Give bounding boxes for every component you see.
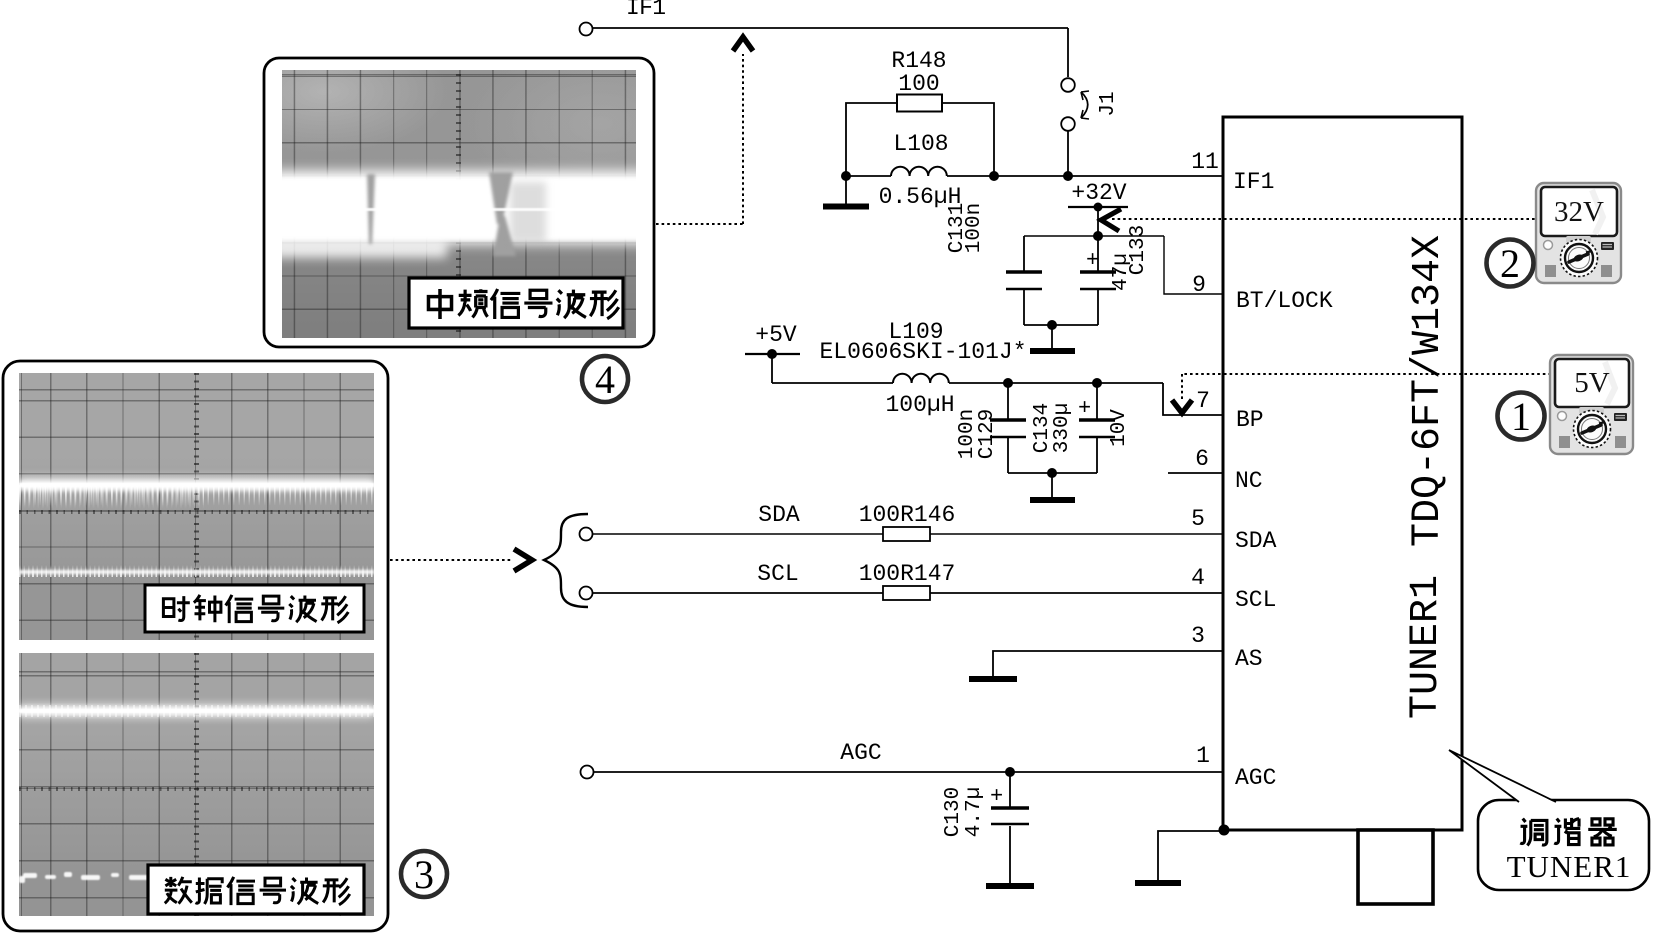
svg-text:100n: 100n (963, 203, 986, 253)
pin number 4 (1191, 565, 1205, 591)
wire IF1 rail to pin 11 (846, 175, 1224, 177)
scope data caption box (148, 865, 364, 914)
svg-text:2: 2 (1500, 241, 1520, 286)
label J1 (1097, 91, 1120, 116)
svg-text:J1: J1 (1097, 91, 1120, 116)
pin number 5 (1191, 506, 1205, 532)
pin name AS (1235, 646, 1263, 672)
svg-text:AGC: AGC (1235, 765, 1276, 791)
tuner bottom tab (1358, 830, 1433, 904)
voltmeter 32V (1536, 183, 1621, 283)
pin name IF1 (1233, 169, 1274, 195)
svg-text:3: 3 (1191, 623, 1205, 649)
pin 3 AS wire to ground (969, 651, 1224, 679)
svg-text:3: 3 (414, 852, 434, 897)
pin name SDA (1235, 528, 1277, 554)
net label AGC (840, 740, 881, 766)
pin number 6 (1195, 446, 1209, 472)
ground cap bank 1 (1030, 325, 1075, 351)
svg-text:100R147: 100R147 (859, 561, 956, 587)
refdes TUNER1 vertical (1404, 575, 1449, 719)
scope clock caption box (145, 585, 364, 632)
pin name BT/LOCK (1236, 288, 1333, 314)
wire cap bank top rail (1024, 231, 1164, 241)
arrow into pin 7 (1172, 400, 1192, 413)
svg-text:L108: L108 (893, 131, 948, 157)
capacitor C129 (990, 383, 1026, 473)
scope photo 4 frame (264, 58, 654, 347)
resistor R147 (883, 586, 930, 600)
svg-text:IF1: IF1 (626, 0, 666, 21)
svg-text:330µ: 330µ (1051, 403, 1074, 453)
label C130 (942, 787, 965, 837)
svg-text:4: 4 (1191, 565, 1205, 591)
callout number 3 (401, 851, 447, 897)
svg-text:AGC: AGC (840, 740, 881, 766)
svg-text:SDA: SDA (758, 502, 800, 528)
jumper J1 (1061, 78, 1089, 131)
oscilloscope photo 4: IF waveform (282, 70, 636, 338)
dotted probe line from scope 4 to IF1 wire (656, 54, 743, 224)
pin name NC (1235, 468, 1263, 494)
junction node C134 (1092, 378, 1102, 388)
pin name SCL (1235, 587, 1276, 613)
pin number 1 (1196, 743, 1210, 769)
svg-text:11: 11 (1191, 149, 1219, 175)
wire SDA right (930, 533, 1224, 535)
label L108 (893, 131, 948, 157)
net label SCL (757, 561, 798, 587)
value 100R146 (859, 502, 956, 528)
ground at tuner (1135, 831, 1224, 883)
svg-text:TUNER1: TUNER1 (1404, 575, 1449, 719)
callout text tuner (Chinese) (1520, 818, 1617, 846)
svg-text:TUNER1: TUNER1 (1507, 849, 1632, 884)
junction node tuner ground (1219, 825, 1230, 836)
wire cap bank bottom rail (1024, 320, 1098, 330)
dotted line from 5V meter (1182, 374, 1551, 400)
svg-text:TDQ-6FT/W134X: TDQ-6FT/W134X (1406, 235, 1451, 547)
capacitor C131 (1006, 236, 1042, 325)
value 100n (C129) (956, 409, 979, 459)
terminal IF1 (580, 23, 593, 36)
value 330u (1051, 403, 1074, 453)
scope photos 3 frame (3, 361, 388, 931)
label C131 (946, 203, 969, 253)
svg-text:BP: BP (1236, 407, 1264, 433)
terminal AGC (581, 766, 594, 779)
net label IF1 (626, 0, 666, 21)
callout bubble (1478, 800, 1649, 890)
svg-text:+: + (1086, 248, 1099, 273)
callout number 2 (1487, 240, 1534, 287)
wire SDA left (592, 533, 883, 535)
svg-text:7: 7 (1196, 388, 1210, 414)
value 100n (963, 203, 986, 253)
svg-text:BT/LOCK: BT/LOCK (1236, 288, 1333, 314)
probe arrow into brace (514, 549, 532, 571)
wire to pin 7 BP (1163, 383, 1224, 415)
pin number 7 (1196, 388, 1210, 414)
svg-text:6: 6 (1195, 446, 1209, 472)
svg-text:9: 9 (1192, 272, 1206, 298)
dotted line 32V through tuner (1224, 218, 1462, 220)
dotted probe line from scope 3 (390, 559, 512, 561)
value 100R147 (859, 561, 956, 587)
probe arrow at IF1 wire (733, 37, 753, 51)
wire SCL right (930, 592, 1224, 594)
power +5V (745, 322, 800, 383)
inductor L108 (891, 167, 947, 176)
svg-text:NC: NC (1235, 468, 1263, 494)
svg-text:C133: C133 (1127, 225, 1150, 275)
capacitor C133 polarized (1080, 236, 1116, 325)
svg-text:IF1: IF1 (1233, 169, 1274, 195)
oscilloscope photo 3b: data waveform (19, 653, 374, 916)
ground cap bank 2 (1030, 473, 1075, 500)
ground at L108 (823, 176, 869, 207)
wire cap bank 2 bottom rail (1008, 468, 1097, 478)
capacitor C134 polarized (1078, 383, 1115, 473)
svg-text:100R146: 100R146 (859, 502, 956, 528)
resistor R148 (846, 95, 994, 177)
svg-text:4.7µ: 4.7µ (963, 787, 986, 837)
wire AGC (594, 767, 1224, 777)
label L109 (888, 319, 943, 345)
junction node L108 left (841, 171, 851, 181)
svg-text:C129: C129 (976, 409, 999, 459)
voltmeter 5V (1550, 355, 1633, 454)
svg-text:+: + (1078, 396, 1091, 421)
svg-text:100: 100 (898, 71, 939, 97)
callout tail (1449, 750, 1556, 803)
callout number 4 (582, 356, 628, 402)
svg-text:AS: AS (1235, 646, 1263, 672)
svg-text:SCL: SCL (1235, 587, 1276, 613)
wire IF1 top (593, 27, 1068, 29)
svg-text:5V: 5V (1574, 367, 1610, 399)
value 0.56uH (879, 184, 962, 210)
svg-text:1: 1 (1196, 743, 1210, 769)
terminal SCL (580, 587, 593, 600)
junction node L108 right (989, 171, 999, 181)
wire jumper to IF1 rail (1067, 131, 1069, 176)
brace joining SDA/SCL (544, 514, 588, 607)
svg-text:+5V: +5V (755, 322, 797, 348)
svg-text:4: 4 (595, 357, 615, 402)
capacitor C130 polarized (990, 772, 1029, 884)
label R148 (891, 48, 946, 74)
junction node J1/IF1 (1063, 171, 1073, 181)
svg-text:1: 1 (1511, 394, 1531, 439)
wire IF1 down to jumper (1067, 28, 1069, 77)
svg-text:100µH: 100µH (885, 392, 954, 418)
inductor L109 (772, 374, 1163, 383)
svg-text:5: 5 (1191, 506, 1205, 532)
label C129 (976, 409, 999, 459)
pin 6 NC stub (1168, 472, 1224, 474)
svg-text:C130: C130 (942, 787, 965, 837)
ground C130 (986, 883, 1034, 889)
arrow from 32V meter (1101, 209, 1121, 231)
scope photo 4 caption box (409, 278, 623, 328)
svg-text:EL0606SKI-101J*: EL0606SKI-101J* (819, 339, 1026, 365)
dotted line to 32V meter (1112, 218, 1536, 220)
terminal SDA (580, 528, 593, 541)
resistor R146 (883, 527, 930, 541)
label C134 (1031, 403, 1054, 453)
pin number 3 (1191, 623, 1205, 649)
pin number 11 (1191, 149, 1219, 175)
value 100uH (885, 392, 954, 418)
svg-text:+: + (990, 784, 1003, 809)
value 10V (1108, 409, 1131, 447)
pin name AGC (1235, 765, 1276, 791)
callout number 1 (1498, 393, 1545, 440)
value 47u (1110, 253, 1133, 291)
value 4.7u (963, 787, 986, 837)
net label SDA (758, 502, 800, 528)
part number TDQ-6FT/W134X (1406, 235, 1451, 547)
svg-text:10V: 10V (1108, 409, 1131, 447)
oscilloscope photo 3a: clock waveform (19, 373, 374, 640)
callout text TUNER1 (1507, 849, 1632, 884)
svg-text:32V: 32V (1554, 196, 1604, 228)
pin number 9 (1192, 272, 1206, 298)
wire SCL left (592, 592, 883, 594)
dotted line 5V through tuner (1224, 373, 1462, 375)
label C133 (1127, 225, 1150, 275)
value 100 (898, 71, 939, 97)
value EL0606SKI-101J* (819, 339, 1026, 365)
pin name BP (1236, 407, 1264, 433)
junction node C129 (1003, 378, 1013, 388)
power +32V (1068, 180, 1128, 236)
svg-text:SDA: SDA (1235, 528, 1277, 554)
wire to pin 9 (1164, 236, 1224, 294)
svg-text:+32V: +32V (1071, 180, 1126, 206)
tuner TUNER1 box (1223, 117, 1462, 830)
svg-text:SCL: SCL (757, 561, 798, 587)
